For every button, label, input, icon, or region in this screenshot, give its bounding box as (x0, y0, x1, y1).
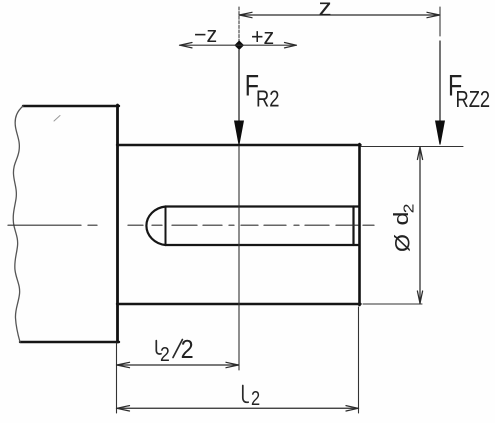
svg-text:2: 2 (160, 343, 170, 365)
hatch tick in wall (54, 116, 60, 122)
dimension l2/2: left arrowhead (117, 362, 130, 367)
right extension line (below shaft) (358, 307, 360, 413)
dimension l2/2: line (117, 364, 239, 366)
wall (fixed support) top edge (23, 105, 119, 107)
+z axis arrow (239, 44, 297, 46)
dimension Ø d2: label (rotated) (390, 203, 417, 252)
dimension l2: left arrowhead (117, 406, 130, 411)
wall bottom edge (20, 341, 119, 343)
-z axis arrow (180, 44, 240, 46)
dimension Ø d2: top arrowhead (417, 147, 422, 159)
force F_R2 line (238, 50, 240, 123)
svg-text:Ø: Ø (390, 234, 414, 252)
svg-text:d: d (390, 212, 412, 226)
dimension z: left arrowhead (239, 12, 252, 17)
force F_RZ2 line (439, 41, 441, 123)
svg-text:2: 2 (402, 203, 417, 213)
dimension Ø d2: bottom arrowhead (417, 291, 422, 303)
top surface extension line (for Ø d2 and F_RZ2) (361, 146, 463, 148)
force F_RZ2 arrowhead (436, 121, 445, 145)
keyway right end line (352, 207, 354, 246)
section line through F_R2 (extension through shaft) (238, 146, 240, 370)
dimension Ø d2: line (419, 147, 421, 304)
shaft right edge (358, 144, 361, 305)
svg-text:2: 2 (251, 386, 260, 409)
shaft top edge (117, 144, 361, 146)
force F_R2 arrowhead (235, 121, 244, 145)
dimension z: line (239, 14, 440, 16)
dimension l2/2: right arrowhead (226, 362, 239, 367)
shaft bottom edge (117, 303, 361, 305)
bottom surface extension line (for Ø d2) (363, 303, 422, 305)
center line (shaft axis, dash-dot) (8, 224, 374, 226)
svg-text:−z: −z (194, 21, 217, 47)
keyway bottom line (166, 244, 360, 246)
right extension line of z dimension (439, 7, 441, 36)
svg-text:+z: +z (251, 23, 274, 49)
z axis extension above dot (238, 7, 240, 45)
wall break line (wavy left edge) (13, 106, 23, 342)
svg-text:z: z (319, 0, 332, 21)
dimension l2: label (243, 386, 248, 403)
keyway rounded left end arc (146, 207, 165, 246)
dimension l2: right arrowhead (346, 406, 358, 411)
wall right edge (116, 105, 119, 342)
dimension l2: line (117, 407, 359, 409)
left extension line (below wall) (116, 343, 118, 413)
origin dot (node) (235, 41, 243, 49)
dimension l2/2: label (156, 341, 161, 354)
dimension z: right arrowhead (427, 12, 440, 17)
keyway top line (166, 205, 360, 207)
keyway arc tangent line (165, 207, 167, 246)
svg-text:R2: R2 (256, 86, 279, 112)
svg-text:2: 2 (181, 336, 194, 364)
svg-text:RZ2: RZ2 (456, 87, 491, 113)
